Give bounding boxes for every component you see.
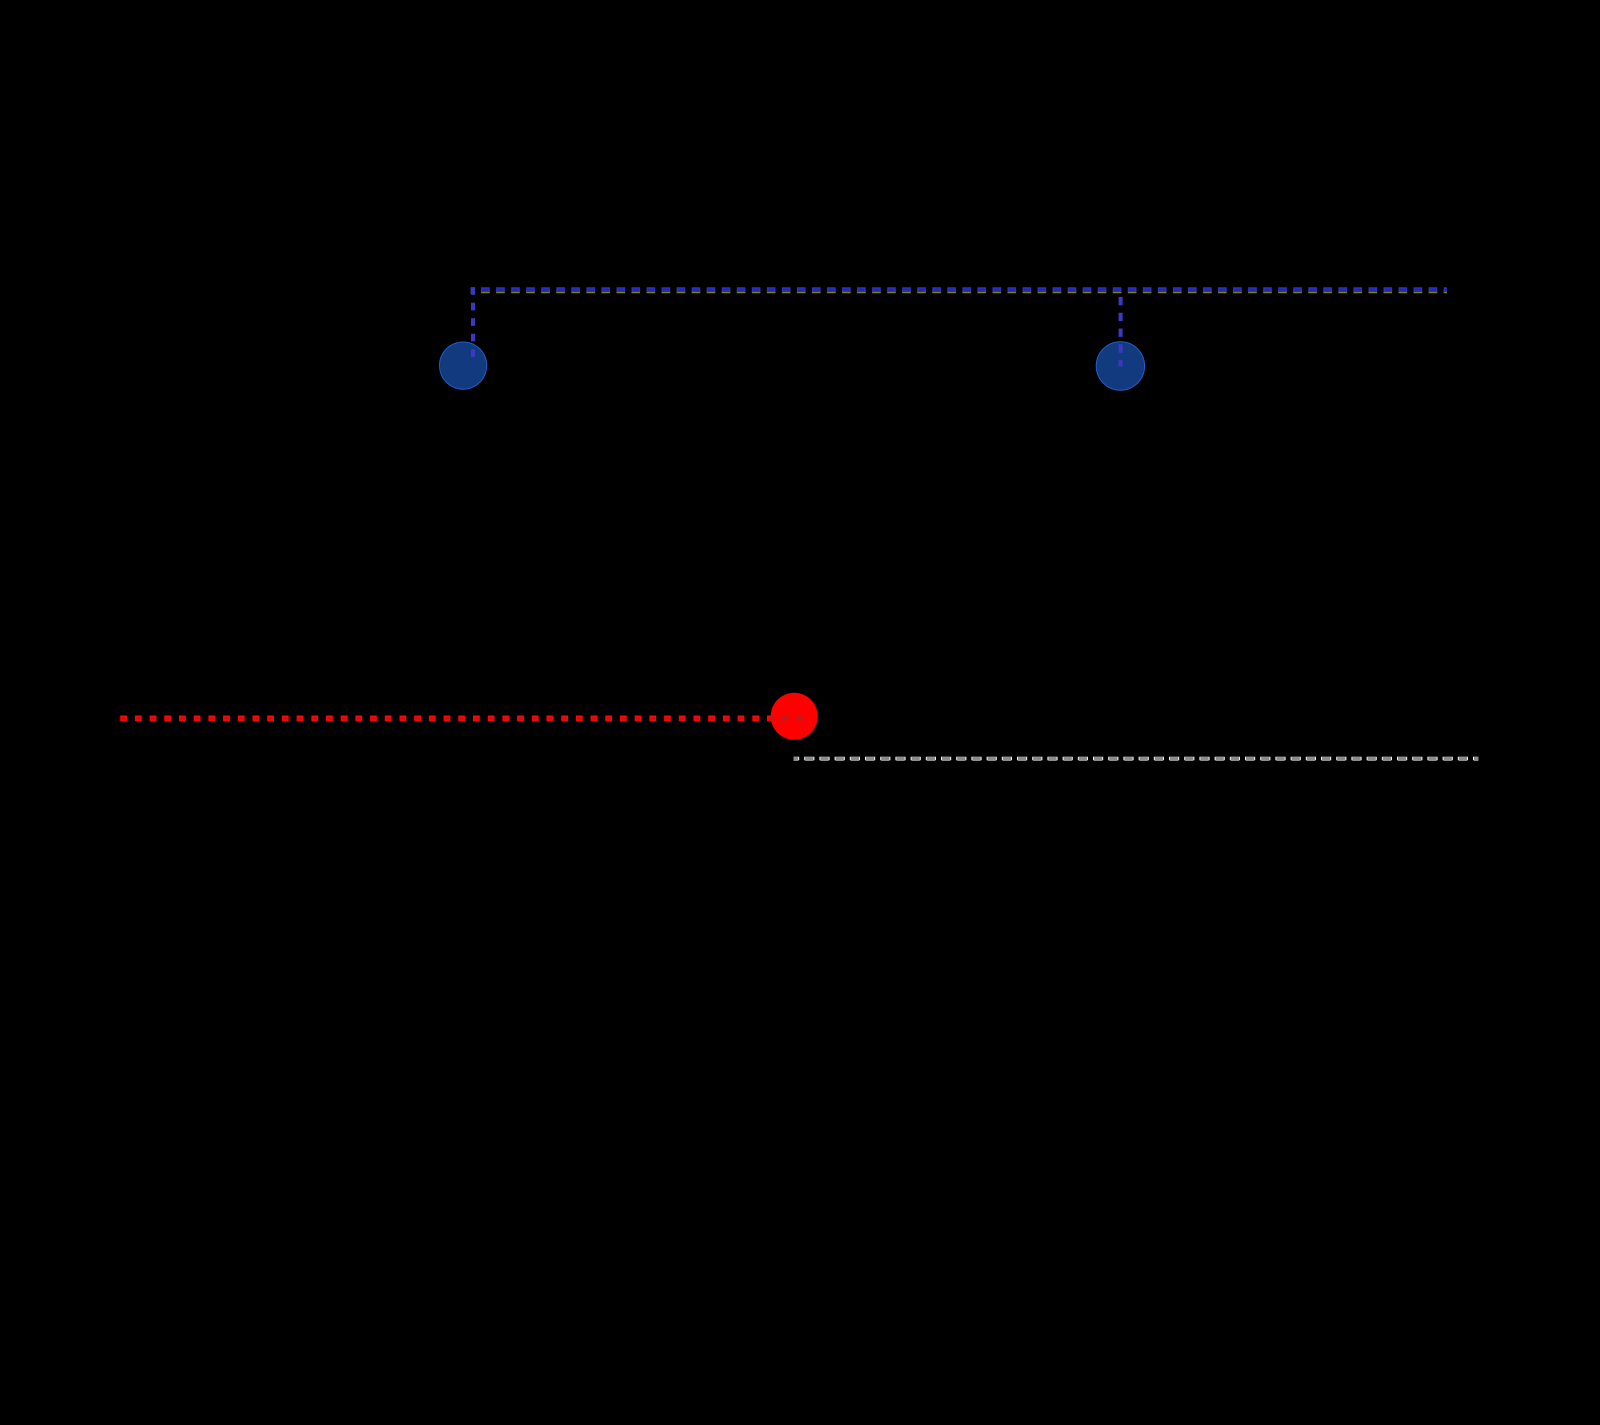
blue vertical dashed line 2: [1119, 290, 1123, 367]
red dot: [771, 693, 818, 740]
blue dot 2: [1096, 342, 1144, 390]
red dashed line bright: [120, 716, 809, 722]
red dashed line core over dot: [770, 716, 807, 720]
blue vertical dashed line 1: [471, 287, 475, 357]
blue dashed horizontal line bright: [471, 287, 1448, 292]
gold dashed horizontal line (under blue): [471, 290, 1448, 293]
white dashed line (under gray): [794, 757, 1479, 760]
gray dashed line: [794, 757, 1479, 761]
red dashed line dark core: [120, 717, 768, 719]
blue dashed horizontal line dark core: [471, 289, 1448, 291]
blue dot 1: [440, 342, 487, 389]
